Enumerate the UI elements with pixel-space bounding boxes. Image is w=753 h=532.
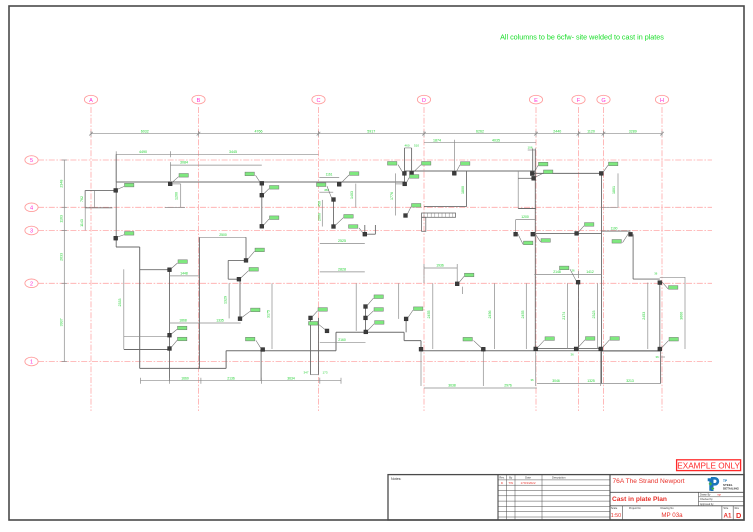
svg-text:1660: 1660	[181, 376, 189, 380]
svg-text:2828: 2828	[338, 268, 346, 272]
svg-text:2456: 2456	[488, 311, 492, 319]
svg-text:450: 450	[317, 201, 321, 207]
svg-text:2174: 2174	[562, 312, 566, 320]
svg-text:D: D	[736, 511, 742, 520]
svg-text:1448: 1448	[180, 272, 188, 276]
svg-text:3634: 3634	[287, 376, 295, 380]
svg-text:Size: Size	[723, 507, 728, 510]
svg-text:510: 510	[414, 143, 419, 147]
svg-text:2976: 2976	[504, 384, 512, 388]
svg-text:36: 36	[530, 378, 534, 382]
svg-text:6262: 6262	[476, 130, 484, 134]
svg-text:2323: 2323	[592, 311, 596, 319]
svg-text:C: C	[316, 98, 320, 104]
svg-text:1776: 1776	[390, 192, 394, 200]
svg-text:4: 4	[30, 206, 33, 212]
svg-text:36: 36	[571, 352, 575, 356]
svg-text:A1: A1	[724, 512, 732, 519]
svg-text:MP 03a: MP 03a	[661, 512, 683, 519]
svg-text:2333: 2333	[118, 299, 122, 307]
svg-text:2: 2	[30, 282, 33, 288]
svg-text:173: 173	[322, 371, 327, 375]
svg-text:4766: 4766	[255, 130, 263, 134]
svg-text:3638: 3638	[448, 384, 456, 388]
svg-text:5: 5	[30, 158, 33, 164]
svg-text:2453: 2453	[642, 312, 646, 320]
svg-text:4490: 4490	[139, 150, 147, 154]
svg-text:2348: 2348	[60, 180, 64, 188]
svg-text:2136: 2136	[227, 376, 235, 380]
svg-text:3937: 3937	[60, 318, 64, 326]
svg-text:Cast in plate Plan: Cast in plate Plan	[612, 496, 667, 503]
svg-text:762: 762	[80, 196, 84, 202]
svg-text:3046: 3046	[552, 379, 560, 383]
svg-text:1:50: 1:50	[611, 513, 622, 519]
svg-text:Project No: Project No	[629, 507, 641, 510]
svg-text:2455: 2455	[427, 311, 431, 319]
svg-text:1100: 1100	[611, 227, 618, 231]
svg-text:1: 1	[30, 360, 33, 366]
svg-text:2148: 2148	[553, 270, 561, 274]
svg-text:347: 347	[303, 371, 308, 375]
svg-text:1335: 1335	[216, 319, 224, 323]
svg-text:6032: 6032	[141, 130, 149, 134]
svg-text:3600: 3600	[679, 312, 683, 320]
svg-text:460: 460	[404, 143, 409, 147]
svg-text:H: H	[660, 98, 664, 104]
svg-text:3175: 3175	[266, 310, 270, 318]
svg-text:F: F	[577, 98, 581, 104]
svg-text:17/03/2022: 17/03/2022	[520, 481, 535, 485]
svg-text:36: 36	[571, 269, 575, 273]
svg-text:2633: 2633	[60, 253, 64, 261]
svg-text:1800: 1800	[461, 186, 465, 194]
svg-text:1163: 1163	[60, 215, 64, 223]
svg-text:TP: TP	[717, 493, 721, 497]
svg-text:1161: 1161	[326, 173, 333, 177]
svg-text:36: 36	[656, 355, 660, 359]
svg-text:1329: 1329	[223, 296, 227, 304]
svg-text:Drawing No: Drawing No	[661, 507, 675, 510]
svg-text:1868: 1868	[179, 319, 187, 323]
svg-text:2160: 2160	[338, 338, 346, 342]
svg-text:1143: 1143	[80, 219, 84, 227]
svg-text:All columns to be 6cfw- site w: All columns to be 6cfw- site welded to c…	[500, 33, 664, 42]
svg-text:A: A	[89, 98, 93, 104]
svg-text:3: 3	[30, 229, 33, 235]
svg-text:76A The Strand Newport: 76A The Strand Newport	[613, 478, 685, 485]
svg-text:3084: 3084	[180, 161, 188, 165]
svg-text:5917: 5917	[367, 130, 375, 134]
svg-text:Scale: Scale	[611, 507, 618, 510]
svg-text:106: 106	[527, 146, 532, 150]
svg-text:1874: 1874	[433, 138, 441, 142]
svg-text:1936: 1936	[436, 264, 444, 268]
svg-text:Approved by: Approved by	[700, 503, 714, 506]
svg-text:Rev: Rev	[735, 507, 740, 510]
svg-text:1200: 1200	[521, 215, 529, 219]
svg-text:1325: 1325	[587, 379, 595, 383]
svg-text:3289: 3289	[629, 130, 637, 134]
svg-text:Drawn By: Drawn By	[700, 494, 711, 497]
svg-text:1412: 1412	[586, 270, 594, 274]
svg-text:Rev.: Rev.	[499, 475, 505, 479]
svg-text:Date: Date	[525, 475, 531, 479]
svg-text:2455: 2455	[521, 311, 525, 319]
svg-text:4035: 4035	[492, 138, 500, 142]
svg-text:G: G	[601, 98, 605, 104]
svg-text:36: 36	[654, 271, 658, 275]
svg-text:2440: 2440	[553, 130, 561, 134]
svg-text:Description: Description	[552, 475, 566, 479]
svg-text:2525: 2525	[338, 239, 346, 243]
svg-text:Checked by: Checked by	[700, 498, 713, 501]
svg-text:2000: 2000	[317, 213, 321, 221]
svg-text:3445: 3445	[229, 150, 237, 154]
svg-text:1403: 1403	[350, 191, 354, 199]
svg-text:2500: 2500	[219, 233, 227, 237]
svg-text:EXAMPLE ONLY: EXAMPLE ONLY	[677, 461, 740, 470]
svg-text:1801: 1801	[612, 186, 616, 194]
svg-text:DETAILING: DETAILING	[723, 486, 740, 490]
svg-text:3213: 3213	[626, 379, 634, 383]
svg-text:B: B	[197, 98, 201, 104]
svg-text:Notes:: Notes:	[391, 477, 401, 481]
svg-text:TW: TW	[508, 481, 513, 485]
svg-text:E: E	[534, 98, 538, 104]
svg-text:D: D	[422, 98, 426, 104]
svg-text:1200: 1200	[175, 192, 179, 200]
svg-text:1120: 1120	[587, 130, 595, 134]
